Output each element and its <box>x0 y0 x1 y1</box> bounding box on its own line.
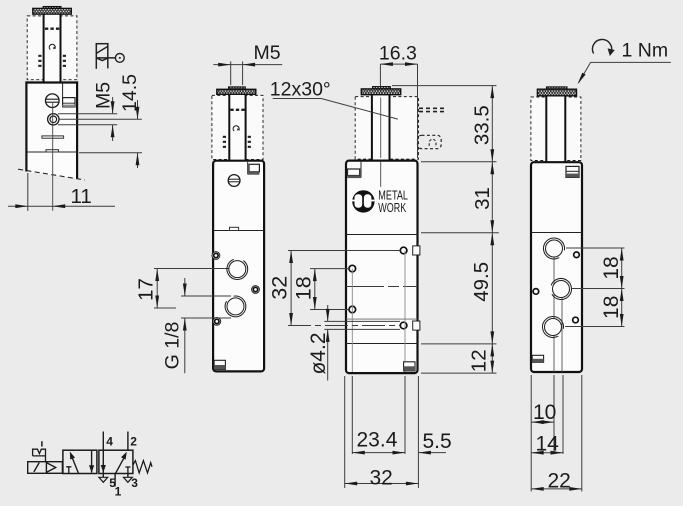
svg-text:5.5: 5.5 <box>423 430 452 453</box>
exhaust triangle 3 <box>124 477 133 482</box>
svg-text:16.3: 16.3 <box>379 43 417 65</box>
view4 screw holes <box>574 252 580 258</box>
view4 hidden body dashed outline <box>531 97 581 161</box>
view4 body <box>531 162 582 372</box>
crown tick <box>41 441 43 446</box>
right square blocked port T <box>125 467 130 474</box>
view2 knurled knob <box>229 87 246 89</box>
svg-text:12x30°: 12x30° <box>270 79 331 101</box>
view3 hole column lines <box>351 269 353 372</box>
dimension 16.3 (view3 top) <box>379 43 418 159</box>
svg-text:32: 32 <box>370 467 393 490</box>
svg-text:18: 18 <box>600 296 623 319</box>
svg-text:WORK: WORK <box>378 201 406 215</box>
dimension 17 (view2, rotated) <box>135 269 160 309</box>
view4 port upper <box>543 238 564 259</box>
valve square left <box>63 450 97 473</box>
port 1 line <box>114 474 116 487</box>
view3 stem centreline into body <box>380 162 382 187</box>
label 12x30 deg with leader <box>270 79 398 120</box>
view2 rotation glyph <box>233 126 239 131</box>
view3 bottom dimensions 23.4 / 5.5 / 32 <box>345 376 452 490</box>
view3 stem centre line <box>380 98 382 159</box>
manual override crown <box>33 449 46 462</box>
view1 side hidden dash columns <box>38 55 66 67</box>
dimension 18 vertical <box>314 269 316 310</box>
view1 rotation glyph on stem <box>49 44 55 49</box>
right square flow diagonal <box>116 456 126 473</box>
view1 stem hidden dashes <box>45 28 59 30</box>
svg-text:12: 12 <box>468 349 491 372</box>
dimension 11 (view1 bottom) <box>8 173 115 211</box>
port 2 line <box>127 432 129 451</box>
view1 hidden body dashed outline <box>27 16 77 80</box>
svg-text:1: 1 <box>115 484 122 498</box>
svg-text:23.4: 23.4 <box>357 428 398 451</box>
view4 bottom dimensions 10 / 14 / 22 <box>531 375 582 492</box>
view2 bottom-left tab <box>214 360 225 369</box>
actuator box <box>28 462 63 474</box>
dimension 10 <box>531 421 554 423</box>
view3 groove lines <box>346 318 418 320</box>
view3 right column dimensions 33.5 / 31 / 49.5 / 12 <box>392 86 499 374</box>
view1 break line (dashed) <box>18 169 85 180</box>
view3 body <box>346 161 418 374</box>
view3 knurled knob <box>373 87 391 89</box>
view3 centre line <box>346 286 418 288</box>
view2 screw hole top-left <box>212 252 220 260</box>
dimension G 1/8 (view2, rotated) <box>162 278 187 373</box>
svg-text:G 1/8: G 1/8 <box>162 322 184 370</box>
extension lines <box>288 250 400 252</box>
view2 body <box>213 161 264 372</box>
dimension ø4.2 (hole diameter, rotated) <box>324 320 400 322</box>
view2 stem hidden dashes <box>230 109 244 111</box>
view1 centre line <box>52 103 54 211</box>
lever diagonal <box>34 463 39 472</box>
svg-text:18: 18 <box>291 276 315 300</box>
svg-text:3: 3 <box>131 476 138 490</box>
view3 right edge tabs <box>413 246 420 255</box>
svg-text:17: 17 <box>135 278 158 301</box>
view4 right dimensions 18 / 18 <box>565 248 625 327</box>
dimension 32 <box>345 483 419 485</box>
valve square right <box>99 450 133 473</box>
left square vertical flow line w/ arrow <box>91 450 93 472</box>
dimension 22 <box>531 488 582 490</box>
return spring <box>133 461 152 473</box>
view1 body step line <box>26 151 77 153</box>
view1 stem <box>43 14 61 82</box>
svg-text:2: 2 <box>130 434 137 448</box>
svg-text:22: 22 <box>548 469 571 492</box>
left square blocked port T <box>66 467 71 474</box>
view2 screw head <box>228 175 240 187</box>
svg-text:4: 4 <box>106 434 113 448</box>
svg-text:32: 32 <box>267 276 291 300</box>
flag symbol (screwdriver slot indicator) <box>96 43 125 69</box>
port 4 line through square to exhaust 5 <box>102 432 104 478</box>
view3 stem <box>372 95 390 161</box>
view3 bottom-right tab <box>404 362 415 371</box>
view4 port middle <box>551 278 571 299</box>
view2 hidden dash columns <box>223 136 251 148</box>
view3 mounting holes <box>400 247 407 254</box>
view2 port leader lines <box>154 268 236 270</box>
svg-text:11: 11 <box>71 185 92 208</box>
svg-text:49.5: 49.5 <box>470 262 493 302</box>
view4 section line <box>531 232 582 234</box>
view4 stem <box>546 96 565 162</box>
svg-text:14: 14 <box>536 432 560 455</box>
view3 section line <box>346 234 418 236</box>
view1 slot bar <box>42 136 64 138</box>
symbol port numbers <box>106 434 138 498</box>
view4 port lower <box>542 316 563 337</box>
view2 port upper (G1/8) <box>227 259 248 279</box>
svg-text:M5: M5 <box>93 82 115 109</box>
view1 screw head <box>46 94 60 108</box>
torque label 1 Nm with leader <box>576 39 671 85</box>
view3 hidden pilot dashes right <box>419 107 446 109</box>
svg-text:31: 31 <box>471 187 494 210</box>
view3 top-left tab <box>360 162 362 178</box>
view1 knurled knob <box>43 7 61 9</box>
svg-text:18: 18 <box>600 256 623 279</box>
view2 M5 dimension <box>230 61 232 85</box>
view2 screw hole bottom-left <box>213 318 221 326</box>
view2 stem <box>229 94 245 160</box>
dimension 14 <box>531 452 563 454</box>
view4 port column lines <box>553 248 555 372</box>
svg-text:ø4.2: ø4.2 <box>307 332 330 374</box>
svg-text:33.5: 33.5 <box>470 105 493 145</box>
view3 logo Metal Work <box>352 189 408 216</box>
view2 screw hole mid-right <box>252 286 260 294</box>
view4 bottom-left tab <box>532 355 543 362</box>
dimension 5.5 <box>418 452 446 454</box>
symbol solid arrowheads <box>67 451 75 460</box>
pilot triangle <box>46 463 55 473</box>
dimension M5 (view1, rotated) <box>58 82 117 141</box>
view2 hidden body dashed outline <box>212 95 263 159</box>
left square flow arrow diagonal <box>72 456 79 473</box>
view3 hidden connector dashed <box>418 135 442 148</box>
svg-text:10: 10 <box>533 401 556 424</box>
dimensions 32 / 18 / ø4.2 (between view2 and view3) <box>267 251 400 381</box>
dimension 14.5 (view1, rotated) <box>59 74 142 168</box>
exhaust triangle 5 <box>99 477 108 482</box>
svg-text:14.5: 14.5 <box>119 74 141 112</box>
view1 fitting circles <box>48 114 59 125</box>
view2 section line + tab <box>213 230 264 232</box>
dimension 23.4 <box>352 452 405 454</box>
view1 side tab <box>62 83 64 108</box>
view1 bottom notch <box>46 150 59 152</box>
view4 top-right tab <box>566 166 579 177</box>
svg-text:1 Nm: 1 Nm <box>622 40 669 62</box>
view2 top-right tab <box>247 162 249 175</box>
view2 port lower (G1/8) <box>225 296 246 317</box>
dimension 32 vertical <box>290 251 292 326</box>
port 3 stub <box>127 474 129 478</box>
view1 body <box>26 83 77 179</box>
svg-text:M5: M5 <box>254 42 281 64</box>
view4 knurled knob <box>547 87 568 89</box>
view3 hidden body dashed outline <box>355 97 418 160</box>
